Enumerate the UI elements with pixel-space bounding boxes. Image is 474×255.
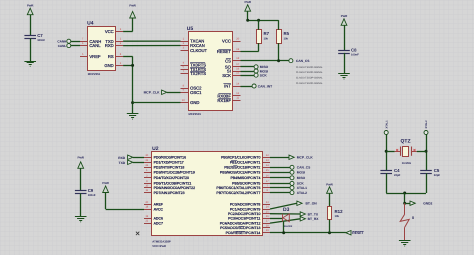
svg-text:MISO: MISO	[297, 176, 306, 180]
svg-text:GND2: GND2	[423, 202, 432, 206]
svg-text:CANH: CANH	[57, 40, 67, 44]
svg-text:PB6/TOSC1/XTAL1/PCINT6: PB6/TOSC1/XTAL1/PCINT6	[216, 186, 260, 190]
svg-text:ADC7: ADC7	[154, 221, 163, 225]
svg-text:C4: C4	[394, 168, 400, 173]
svg-text:R12: R12	[335, 209, 344, 214]
svg-text:CAN_CS: CAN_CS	[296, 59, 310, 63]
svg-text:VREF: VREF	[89, 54, 101, 59]
svg-text:MCP_CLK: MCP_CLK	[297, 156, 314, 160]
svg-text:GND: GND	[190, 100, 199, 105]
svg-text:OSC1: OSC1	[190, 90, 202, 95]
svg-text:PD0/RXD0/PCINT16: PD0/RXD0/PCINT16	[154, 156, 187, 160]
svg-text:RS: RS	[108, 54, 114, 59]
svg-text:22pF: 22pF	[394, 174, 401, 177]
svg-text:RXD: RXD	[105, 43, 114, 48]
svg-text:PB3/MOSI/OC2A/PCINT3: PB3/MOSI/OC2A/PCINT3	[220, 171, 261, 175]
svg-text:PC3/ADC3/PCINT11: PC3/ADC3/PCINT11	[228, 217, 260, 221]
svg-text:INT: INT	[224, 84, 231, 89]
svg-text:XTAL1: XTAL1	[297, 186, 307, 190]
svg-text:PB1/OC1A/PCINT1: PB1/OC1A/PCINT1	[230, 161, 261, 165]
svg-text:PB7/TOSC2/XTAL2/PCINT7: PB7/TOSC2/XTAL2/PCINT7	[216, 191, 260, 195]
svg-text:MCP_CLK: MCP_CLK	[144, 91, 161, 95]
svg-text:PC2/ADC2/PCINT10: PC2/ADC2/PCINT10	[228, 212, 261, 216]
svg-text:CLASS=TSSOP-SIGNAL: CLASS=TSSOP-SIGNAL	[296, 82, 324, 85]
svg-text:100nF: 100nF	[351, 54, 359, 57]
svg-text:PB0/ICP1/CLKO/PCINT0: PB0/ICP1/CLKO/PCINT0	[221, 156, 260, 160]
svg-text:CANL: CANL	[89, 43, 101, 48]
svg-text:AVCC: AVCC	[154, 207, 164, 211]
svg-text:TXD: TXD	[119, 161, 126, 165]
svg-text:PD3/INT1/OC2B/PCINT19: PD3/INT1/OC2B/PCINT19	[154, 171, 195, 175]
svg-text:10k: 10k	[284, 37, 289, 40]
svg-text:GND: GND	[104, 63, 113, 68]
svg-text:BT_ON: BT_ON	[306, 202, 318, 206]
svg-text:RXD: RXD	[118, 156, 126, 160]
svg-text:R5: R5	[284, 31, 290, 36]
svg-text:PD4/T0/XCK/PCINT20: PD4/T0/XCK/PCINT20	[154, 176, 189, 180]
svg-text:PwR: PwR	[341, 14, 348, 18]
svg-text:100nF: 100nF	[88, 194, 96, 197]
svg-text:22pF: 22pF	[434, 174, 441, 177]
svg-text:XTAL2: XTAL2	[297, 191, 307, 195]
svg-text:CAN_INT: CAN_INT	[258, 84, 272, 88]
svg-text:PB4/MISO/PCINT4: PB4/MISO/PCINT4	[230, 176, 260, 180]
svg-text:BT_RX: BT_RX	[308, 217, 320, 221]
svg-text:PwR: PwR	[244, 0, 251, 4]
svg-text:VCC=PwR: VCC=PwR	[152, 244, 166, 248]
svg-text:C5: C5	[434, 168, 440, 173]
svg-text:CLASS=TSSOP-SIGNAL: CLASS=TSSOP-SIGNAL	[296, 71, 324, 74]
svg-text:MCP2551: MCP2551	[88, 72, 101, 76]
svg-text:C7: C7	[37, 33, 43, 38]
svg-text:100nF: 100nF	[37, 39, 45, 42]
svg-text:BT_TX: BT_TX	[308, 212, 319, 216]
svg-text:MOSI: MOSI	[297, 171, 306, 175]
svg-text:RESET: RESET	[352, 231, 364, 235]
svg-text:0: 0	[412, 216, 414, 220]
svg-text:PC0/ADC0/PCINT8: PC0/ADC0/PCINT8	[230, 203, 261, 207]
svg-text:XTAL1: XTAL1	[385, 120, 388, 129]
svg-text:PC4/ADC4/SDA/PCINT12: PC4/ADC4/SDA/PCINT12	[220, 221, 261, 225]
svg-text:RESET: RESET	[217, 49, 231, 54]
svg-text:U5: U5	[187, 26, 194, 32]
svg-text:CS: CS	[225, 58, 231, 63]
svg-text:U2: U2	[152, 146, 159, 152]
svg-text:MAL002: MAL002	[283, 225, 293, 228]
svg-text:PB2/SS/OC1B/PCINT2: PB2/SS/OC1B/PCINT2	[224, 166, 260, 170]
svg-text:CLASS=TSSOP-SIGNAL: CLASS=TSSOP-SIGNAL	[296, 77, 324, 80]
svg-text:SCK: SCK	[222, 73, 231, 78]
svg-text:PwR: PwR	[129, 4, 136, 8]
svg-text:10k: 10k	[264, 37, 269, 40]
svg-text:PD2/INT0/PCINT18: PD2/INT0/PCINT18	[154, 166, 185, 170]
svg-text:PD7/AIN1/PCINT23: PD7/AIN1/PCINT23	[154, 191, 185, 195]
svg-text:ADC6: ADC6	[154, 217, 163, 221]
svg-text:CANL: CANL	[58, 44, 67, 48]
svg-text:C9: C9	[88, 188, 94, 193]
svg-text:TX2RTS: TX2RTS	[190, 71, 206, 76]
svg-text:PC1/ADC1/PCINT9: PC1/ADC1/PCINT9	[230, 207, 261, 211]
svg-text:ATMEGA328P: ATMEGA328P	[152, 239, 171, 243]
svg-text:16 MHz: 16 MHz	[402, 162, 412, 165]
svg-text:SCK: SCK	[260, 74, 268, 78]
svg-text:VCC: VCC	[105, 29, 114, 34]
svg-text:PwR: PwR	[77, 155, 84, 159]
svg-text:CLKOUT: CLKOUT	[190, 48, 207, 53]
svg-text:PD6/AIN0/OC0A/PCINT22: PD6/AIN0/OC0A/PCINT22	[154, 186, 195, 190]
svg-text:VCC: VCC	[222, 39, 231, 44]
svg-text:10k: 10k	[335, 215, 340, 218]
svg-text:D3: D3	[283, 207, 290, 213]
svg-text:R7: R7	[264, 31, 270, 36]
svg-text:PwR: PwR	[27, 4, 34, 8]
svg-text:U4: U4	[87, 21, 94, 27]
svg-text:QTZ: QTZ	[401, 139, 411, 145]
svg-text:PwR: PwR	[102, 181, 109, 185]
svg-text:CAN_CS: CAN_CS	[297, 166, 311, 170]
svg-text:CLASS=TSSOP-SIGNAL: CLASS=TSSOP-SIGNAL	[296, 66, 324, 69]
svg-text:PwR: PwR	[326, 182, 333, 186]
svg-text:MCP2515: MCP2515	[189, 112, 202, 116]
svg-text:PD1/TXD/PCINT17: PD1/TXD/PCINT17	[154, 161, 184, 165]
svg-text:C8: C8	[351, 48, 357, 53]
svg-text:XTAL2: XTAL2	[425, 120, 428, 129]
svg-text:AREF: AREF	[154, 203, 163, 207]
